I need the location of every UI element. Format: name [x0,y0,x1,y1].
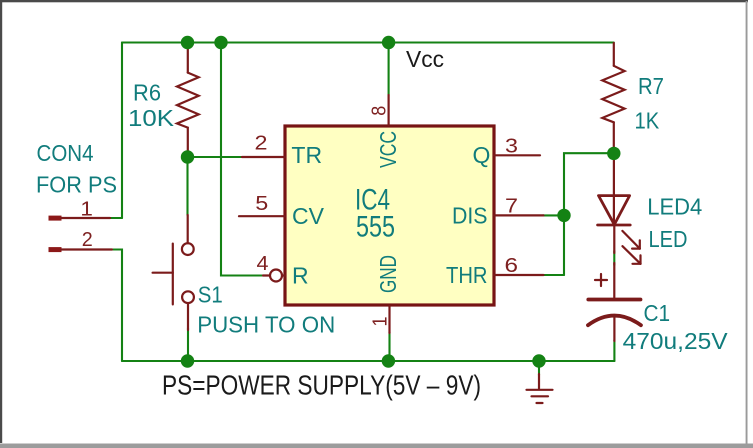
svg-text:5: 5 [255,193,268,215]
capacitor C1 [588,263,641,341]
diode LED4 [598,158,631,253]
svg-text:1: 1 [80,199,93,221]
pin 1 GND stub [388,306,390,333]
svg-text:10K: 10K [128,105,175,131]
LED arrow 2 [623,246,641,264]
svg-text:2: 2 [82,229,93,251]
wire bottom rail [122,360,614,362]
svg-text:470u,25V: 470u,25V [623,328,729,354]
frame left [0,0,2,443]
LED arrow 1 [622,231,639,249]
svg-text:3: 3 [505,136,518,158]
ground [527,361,553,403]
svg-text:PS=POWER SUPPLY(5V – 9V): PS=POWER SUPPLY(5V – 9V) [162,370,481,401]
junction dot bottom rail S1 [181,354,194,367]
svg-text:R6: R6 [133,79,161,105]
connector CON4 pad 1 [49,216,111,221]
svg-text:LED: LED [649,226,688,252]
wire S1 bottom to bottom rail [187,328,189,361]
svg-text:PUSH TO ON: PUSH TO ON [197,312,335,338]
svg-text:CV: CV [292,203,325,229]
svg-text:1K: 1K [635,108,660,134]
wire R6 junction down to S1 [186,157,188,215]
svg-text:LED4: LED4 [647,194,702,220]
frame right [746,1,748,445]
wire left vertical (pin1 net) [121,43,123,219]
pin 7 DIS stub [494,214,544,216]
junction dot top rail mid [214,36,227,49]
wire Vcc to pin 8 [388,43,390,96]
pin 5 CV stub [239,215,285,217]
frame bottom [0,444,753,448]
junction dot bottom rail GND pin [382,354,395,367]
wire DIS-THR vertical net [543,153,614,215]
svg-text:1: 1 [370,317,392,327]
wire top rail [122,41,614,43]
junction dot top rail left [181,36,194,49]
svg-text:Q: Q [473,142,491,168]
IC U1: IC4 555 timer body [285,126,494,305]
resistor R7 [602,43,624,148]
wire CON4 pin2 to bottom rail [110,250,122,362]
pin 6 THR stub [494,274,544,276]
svg-text:R: R [292,263,309,289]
wire C1 to bottom rail [613,340,615,361]
pin 8 VCC stub [388,95,390,125]
wire CON4 pin1 to left rail [108,217,122,219]
junction dot top rail Vcc [382,36,395,49]
svg-text:GND: GND [375,255,401,293]
wire top rail down to R pin (pin 4 net) [221,43,263,276]
svg-text:7: 7 [505,196,518,218]
junction dot DIS node [557,209,570,222]
svg-text:S1: S1 [198,281,223,307]
wire GND pin 1 to bottom rail [388,332,390,361]
resistor R6 [177,43,199,152]
junction dot bottom rail ground [532,354,545,367]
pin 4 R stub with inversion bubble [263,270,286,282]
svg-text:FOR PS: FOR PS [36,171,117,197]
svg-text:8: 8 [369,106,391,116]
junction dot R7-LED node [607,147,620,160]
pin 3 Q stub [494,154,540,156]
C1 plus sign [595,274,607,286]
svg-text:DIS: DIS [452,203,488,229]
svg-text:Vcc: Vcc [406,46,444,72]
wire R6 junction to TR pin [188,156,243,158]
svg-text:2: 2 [255,133,268,155]
svg-text:TR: TR [291,142,322,168]
svg-text:4: 4 [257,253,269,275]
svg-text:CON4: CON4 [37,140,94,166]
svg-text:C1: C1 [644,300,671,326]
wire LED to C1 [613,251,615,265]
frame top [0,0,748,2]
pin 2 TR stub [242,156,285,158]
svg-text:6: 6 [505,255,519,277]
svg-text:R7: R7 [638,73,664,99]
junction dot TR node [181,150,194,163]
switch S1 [153,215,194,330]
connector CON4 pad 2 [49,247,113,252]
wire net vertical to THR [563,215,565,275]
svg-text:VCC: VCC [375,131,401,168]
svg-text:555: 555 [356,211,395,244]
wire THR to net [543,274,564,276]
svg-text:THR: THR [446,262,488,288]
